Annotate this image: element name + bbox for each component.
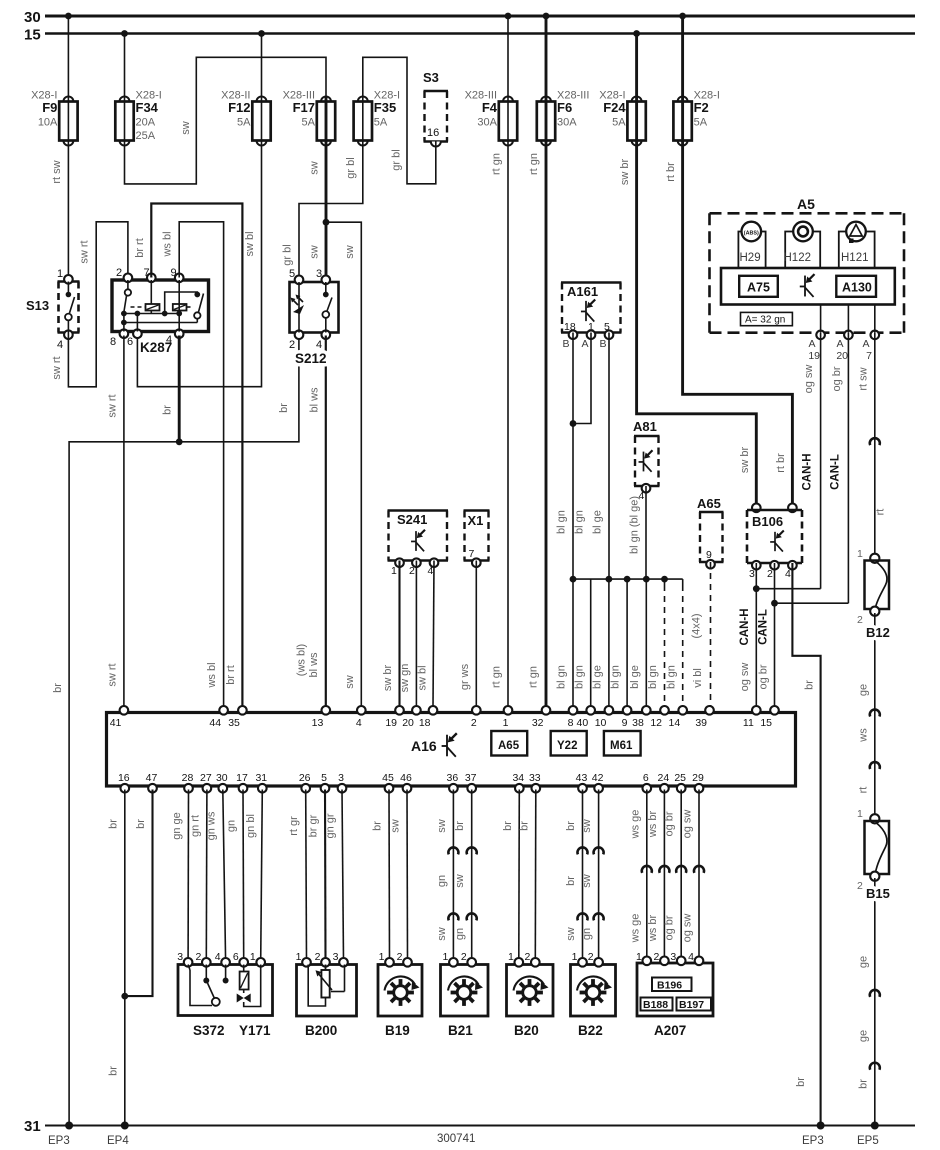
fuse F9 10A: [63, 97, 73, 102]
wire A65 pin9 to A16 pin39 (vi bl, 4x4, dashed): [710, 562, 712, 707]
wire B106 pin4 br to EP3: [792, 563, 820, 1126]
switch S241: [388, 509, 449, 511]
svg-text:1: 1: [508, 951, 514, 963]
wire bus to pin12 (bl gn, dashed): [664, 579, 666, 585]
svg-text:bl ge: bl ge: [592, 665, 604, 689]
A16 pin 6: [643, 784, 652, 793]
svg-text:47: 47: [146, 772, 158, 784]
svg-text:og br: og br: [831, 366, 843, 391]
wire F2 to B106 (rt br): [683, 145, 793, 511]
svg-text:11: 11: [743, 717, 754, 729]
wire F24 to B106 (sw br): [637, 145, 757, 511]
sub-unit label A130: [836, 276, 876, 297]
wire bus to pin38 (bl ge): [645, 579, 647, 707]
svg-text:sw: sw: [309, 161, 321, 175]
wire F6 to A16 pin32 (rt gn): [545, 145, 548, 708]
svg-text:2: 2: [289, 339, 295, 351]
A16 pin 13: [322, 706, 331, 715]
wire A16 pin31 to Y171 pin1 (gn bl): [261, 790, 263, 961]
svg-text:sw rt: sw rt: [106, 663, 118, 686]
svg-text:ge: ge: [857, 1030, 869, 1042]
junction A161: [570, 420, 577, 427]
svg-text:2: 2: [409, 565, 415, 577]
svg-text:4: 4: [215, 951, 221, 963]
svg-text:sw: sw: [454, 874, 466, 888]
wire A81 pin4 (bl gn / bl ge): [645, 486, 647, 579]
switch S212: [290, 282, 339, 333]
warning lamp H121: [839, 232, 875, 269]
wire A16 pin30 to S372 pin4 (gn ws): [223, 790, 226, 961]
svg-text:sw br: sw br: [382, 665, 394, 692]
svg-text:S3: S3: [423, 70, 439, 85]
svg-text:18: 18: [419, 717, 431, 729]
K287 pin6 stub: [136, 314, 138, 332]
svg-text:B21: B21: [448, 1023, 473, 1038]
svg-text:30: 30: [216, 772, 228, 784]
svg-text:S13: S13: [26, 298, 49, 313]
svg-text:F12: F12: [228, 100, 250, 115]
svg-text:sw: sw: [180, 121, 192, 135]
A16 pin 31: [258, 784, 267, 793]
wheel speed sensor B21: [441, 965, 489, 1017]
svg-text:S241: S241: [397, 512, 427, 527]
svg-text:4: 4: [356, 717, 362, 729]
junction 15/F12: [258, 30, 265, 37]
A16 pin 15: [770, 706, 779, 715]
svg-text:sw: sw: [436, 927, 448, 941]
svg-text:B: B: [562, 338, 569, 350]
junction br: [176, 438, 183, 445]
svg-text:bl gn: bl gn: [647, 665, 659, 689]
svg-text:rt gn: rt gn: [491, 666, 503, 688]
svg-text:rt br: rt br: [775, 453, 787, 473]
svg-text:og br: og br: [664, 811, 676, 836]
A16 pin 18: [429, 706, 438, 715]
wire 15 to F12: [261, 34, 263, 98]
label A=32gn: [741, 312, 793, 325]
svg-text:br: br: [135, 819, 147, 829]
wire A16 pin34 to B20 pin1 (br): [518, 790, 521, 961]
svg-text:CAN-L: CAN-L: [757, 609, 769, 645]
svg-text:5: 5: [321, 772, 327, 784]
svg-text:2: 2: [767, 568, 773, 580]
svg-text:gn: gn: [454, 928, 466, 940]
svg-text:25: 25: [674, 772, 686, 784]
svg-text:17: 17: [236, 772, 248, 784]
wire 15 to F24: [635, 34, 638, 98]
svg-text:A= 32 gn: A= 32 gn: [745, 315, 785, 326]
svg-text:B197: B197: [679, 999, 704, 1011]
wire bus to pin9 (bl gn): [626, 579, 628, 707]
svg-text:A161: A161: [567, 284, 598, 299]
svg-text:sw: sw: [344, 675, 356, 689]
svg-text:gn rt: gn rt: [189, 815, 201, 837]
svg-text:br: br: [107, 1066, 119, 1076]
A16 pin 26: [301, 784, 310, 793]
fuse F4 30A: [503, 97, 513, 102]
svg-text:ws br: ws br: [647, 915, 659, 943]
control unit A207 (B196/B188/B197 sensors): [637, 963, 713, 1016]
svg-text:ws bl: ws bl: [206, 662, 218, 688]
wire sw branch to A16 pin4: [326, 222, 361, 707]
svg-text:2: 2: [857, 880, 863, 892]
svg-text:H29: H29: [740, 252, 761, 264]
svg-text:46: 46: [400, 772, 412, 784]
svg-text:br: br: [454, 821, 466, 831]
svg-text:bl gn: bl gn: [665, 665, 677, 689]
svg-text:40: 40: [577, 717, 589, 729]
control unit B106: [752, 504, 761, 513]
svg-text:41: 41: [110, 717, 122, 729]
fuse F34 20A/25A: [120, 97, 130, 102]
svg-text:36: 36: [447, 772, 459, 784]
wire bus to pin10 (bl ge): [608, 579, 610, 707]
svg-text:16: 16: [427, 127, 439, 139]
svg-text:A207: A207: [654, 1023, 686, 1038]
svg-text:bl gn: bl gn: [556, 510, 568, 534]
svg-text:14: 14: [669, 717, 681, 729]
A16 pin 47: [148, 784, 157, 793]
svg-text:br: br: [107, 819, 119, 829]
svg-text:B196: B196: [657, 980, 682, 992]
svg-text:og sw: og sw: [682, 810, 694, 839]
A16 pin 37: [467, 784, 476, 793]
svg-text:og sw: og sw: [803, 365, 815, 394]
sub-unit B197: [677, 998, 712, 1011]
svg-text:19: 19: [808, 350, 820, 362]
svg-text:rt gn: rt gn: [528, 666, 540, 688]
svg-text:5A: 5A: [694, 117, 708, 129]
junction bus p38: [643, 576, 650, 583]
wire S241 pin1 to A16 pin19 (sw br): [398, 561, 400, 708]
A16 pin 30: [219, 784, 228, 793]
wire S241 pin4 to A16 pin18 (sw bl): [433, 561, 434, 708]
wire bus to pin8 (bl gn): [572, 579, 574, 707]
svg-text:sw: sw: [436, 819, 448, 833]
svg-text:1: 1: [443, 951, 449, 963]
svg-text:br: br: [518, 821, 530, 831]
wire A16 pin27 to S372 pin2 (gn rt): [205, 790, 208, 961]
A5 pin A7: [871, 331, 880, 340]
wire A16 pin42 to B22 pin2 (sw/sw/gn): [598, 790, 600, 961]
svg-text:16: 16: [118, 772, 130, 784]
A16 pin 10: [605, 706, 614, 715]
wire A16 pin17 to S372 pin6 (gn): [242, 790, 245, 961]
A16 pin 1: [504, 706, 513, 715]
wire S13 pin4 to K287 pin2 (sw rt): [68, 222, 128, 387]
svg-text:1: 1: [391, 565, 397, 577]
svg-text:gn ws: gn ws: [205, 811, 217, 840]
svg-text:5A: 5A: [612, 117, 626, 129]
A16 pin 2: [472, 706, 481, 715]
svg-text:9: 9: [622, 717, 628, 729]
svg-text:sw: sw: [581, 819, 593, 833]
svg-text:2: 2: [588, 951, 594, 963]
svg-text:rt: rt: [875, 509, 887, 516]
svg-text:sw gn: sw gn: [399, 664, 411, 693]
svg-text:5A: 5A: [302, 117, 316, 129]
fuse F35 5A: [358, 97, 368, 102]
svg-text:sw: sw: [581, 874, 593, 888]
fuse F12 5A: [257, 97, 267, 102]
svg-text:S372: S372: [193, 1023, 225, 1038]
K287 internal wire to contact 2 fixed: [165, 292, 198, 314]
svg-text:1: 1: [57, 268, 63, 280]
A16 pin 35: [238, 706, 247, 715]
svg-text:4: 4: [785, 568, 791, 580]
svg-text:B19: B19: [385, 1023, 410, 1038]
wire br horizontal S212pin2 to EP3 drop: [69, 336, 299, 1126]
wire A161 pin18 (bl gn): [572, 333, 574, 424]
svg-text:ws: ws: [857, 728, 869, 743]
junction EP3 left: [65, 1122, 73, 1130]
A16 pin 27: [203, 784, 212, 793]
A5 control icon: [800, 274, 815, 297]
svg-text:EP5: EP5: [857, 1135, 879, 1147]
A16 pin 12: [660, 706, 669, 715]
switch S372 / valve Y171 unit: [178, 965, 273, 1016]
A16 pin 4: [357, 706, 366, 715]
K287 contact 2 (to pin8 net): [199, 294, 204, 313]
svg-text:F9: F9: [42, 100, 57, 115]
svg-text:EP4: EP4: [107, 1135, 129, 1147]
svg-text:28: 28: [182, 772, 194, 784]
svg-text:sw bl: sw bl: [417, 665, 429, 690]
svg-text:vi bl: vi bl: [692, 668, 704, 688]
svg-text:3: 3: [338, 772, 344, 784]
K287 pin9 to pin4 through wire: [178, 280, 180, 332]
svg-text:A: A: [581, 338, 588, 350]
svg-text:2: 2: [315, 951, 321, 963]
svg-text:34: 34: [512, 772, 524, 784]
svg-text:33: 33: [529, 772, 541, 784]
wire A16 pin26 to B200 pin1 (rt gr): [305, 790, 308, 961]
control unit A16 (ABS): [107, 713, 796, 787]
svg-text:45: 45: [382, 772, 394, 784]
wire B106 pin2 to A16 pin15 (og br): [774, 563, 776, 707]
wire S3 to F35 (gr bl): [363, 57, 436, 184]
svg-text:4: 4: [166, 334, 172, 346]
svg-text:CAN-L: CAN-L: [830, 454, 842, 490]
wire A16 pin28 to S372 pin3 (gn ge): [187, 790, 189, 961]
svg-text:bl gn: bl gn: [573, 665, 585, 689]
A16 pin 11: [752, 706, 761, 715]
wire A16 pin3 to B200 pin3 (gn gr): [342, 790, 344, 961]
svg-text:sw bl: sw bl: [244, 231, 256, 256]
junction bus p12: [661, 576, 668, 583]
svg-text:F4: F4: [482, 100, 498, 115]
svg-text:Y171: Y171: [239, 1023, 271, 1038]
wire F17 to S212 pin3 (sw): [325, 145, 328, 278]
svg-text:sw: sw: [390, 819, 402, 833]
svg-text:sw: sw: [309, 245, 321, 259]
A16 pin 46: [403, 784, 412, 793]
svg-text:gn bl: gn bl: [245, 814, 257, 838]
A16 pin 43: [578, 784, 587, 793]
svg-text:br gr: br gr: [308, 814, 320, 837]
svg-text:br: br: [502, 821, 514, 831]
wire K287 pin9 to A16 pin44 (ws bl): [179, 222, 223, 707]
svg-text:br: br: [857, 1079, 869, 1089]
junction bus p9: [624, 576, 631, 583]
svg-text:2: 2: [461, 951, 467, 963]
S372 internals: [188, 965, 190, 971]
svg-text:og sw: og sw: [739, 663, 751, 692]
svg-text:ws ge: ws ge: [629, 810, 641, 840]
wheel speed sensor B19: [378, 965, 422, 1017]
svg-text:rt br: rt br: [665, 162, 677, 182]
A16 pin 29: [695, 784, 704, 793]
svg-text:2: 2: [397, 951, 403, 963]
svg-text:6: 6: [233, 951, 239, 963]
svg-text:gr bl: gr bl: [345, 157, 357, 178]
svg-text:1: 1: [857, 808, 863, 820]
svg-text:bl ws: bl ws: [308, 652, 320, 678]
wire A16 pin37 to B21 pin2 (br/sw/gn): [471, 790, 473, 961]
svg-text:4: 4: [428, 565, 434, 577]
svg-text:8: 8: [568, 717, 574, 729]
svg-text:H121: H121: [841, 252, 869, 264]
junction 15/F24: [633, 30, 640, 37]
junction 30/F4: [505, 13, 512, 20]
svg-text:og br: og br: [757, 664, 769, 689]
svg-text:B106: B106: [752, 514, 783, 529]
svg-text:Y22: Y22: [557, 740, 577, 752]
svg-text:rt: rt: [857, 787, 869, 794]
svg-text:(ws bl): (ws bl): [296, 644, 308, 676]
wire F34 to F17 (sw): [125, 57, 327, 184]
wire A16 pin43 to B22 pin1 (br/br/sw): [582, 790, 584, 961]
K287 contact (pin2-pin8): [127, 280, 129, 289]
svg-text:29: 29: [692, 772, 704, 784]
svg-text:4: 4: [316, 339, 322, 351]
svg-text:1: 1: [296, 951, 302, 963]
svg-text:gn: gn: [436, 875, 448, 887]
junction 15/F34: [121, 30, 128, 37]
wire 15 to F34: [124, 34, 126, 98]
svg-text:bl gn: bl gn: [574, 510, 586, 534]
wire B12 to B15 (ge/ws/rt): [874, 613, 876, 817]
wire og sw link: [756, 588, 820, 590]
svg-text:13: 13: [312, 717, 324, 729]
svg-text:F34: F34: [136, 100, 159, 115]
svg-text:15: 15: [760, 717, 772, 729]
svg-text:2: 2: [654, 951, 660, 963]
svg-text:sw rt: sw rt: [51, 356, 63, 379]
wire A161 junction down to bus: [572, 424, 574, 580]
svg-text:rt sw: rt sw: [857, 367, 869, 390]
svg-text:rt gn: rt gn: [528, 153, 540, 175]
A16 pin 14: [678, 706, 687, 715]
svg-text:S212: S212: [295, 351, 327, 366]
A16 pin 38: [642, 706, 651, 715]
A16 pin 40: [586, 706, 595, 715]
K287 coil 1: [150, 280, 152, 304]
sub-unit label Y22 in A16: [551, 731, 587, 756]
svg-text:F2: F2: [694, 100, 709, 115]
svg-text:24: 24: [658, 772, 670, 784]
svg-text:og br: og br: [664, 915, 676, 940]
A5 inner unit box: [721, 268, 895, 305]
svg-text:br: br: [795, 1077, 807, 1087]
svg-text:5A: 5A: [374, 117, 388, 129]
bl gn bus line: [573, 578, 683, 580]
A16 pin 36: [449, 784, 458, 793]
svg-text:10A: 10A: [38, 117, 58, 129]
wire A5-20 og br (CAN-L): [847, 333, 849, 604]
wire A16 pin33 to B20 pin2 (br): [534, 790, 537, 961]
svg-text:1: 1: [503, 717, 509, 729]
svg-text:20: 20: [402, 717, 414, 729]
wire A5-7 rt sw to B12: [874, 333, 876, 556]
warning lamp H122: [785, 232, 820, 269]
svg-text:(4x4): (4x4): [691, 613, 703, 638]
sub-unit label M61 in A16: [604, 731, 641, 756]
junction pin47/EP4: [121, 993, 128, 1000]
wire A16 pin16 br to EP4: [124, 790, 126, 1126]
svg-text:gn: gn: [581, 928, 593, 940]
svg-text:A: A: [808, 338, 815, 350]
svg-text:bl ws: bl ws: [308, 387, 320, 413]
junction 30/F2: [679, 13, 686, 20]
sub-unit label A75: [739, 276, 778, 297]
S212 switch leg: [325, 282, 327, 293]
svg-text:A: A: [862, 338, 869, 350]
wire K287 pin7 to A16 pin35 (br rt): [151, 204, 242, 708]
svg-text:A130: A130: [842, 281, 872, 295]
K287 coil 2: [173, 304, 187, 311]
svg-text:A81: A81: [633, 419, 657, 434]
wire 30 to F2: [681, 16, 684, 97]
svg-text:CAN-H: CAN-H: [802, 453, 814, 490]
svg-text:ws bl: ws bl: [162, 231, 174, 257]
svg-text:bl ge: bl ge: [592, 510, 604, 534]
svg-text:A: A: [836, 338, 843, 350]
junction EP5: [871, 1122, 879, 1130]
svg-text:7: 7: [866, 350, 872, 362]
svg-text:1: 1: [250, 951, 256, 963]
A16 pin 39: [705, 706, 714, 715]
fuse F17 5A: [321, 97, 331, 102]
svg-text:4: 4: [57, 339, 63, 351]
svg-text:3: 3: [333, 951, 339, 963]
svg-text:300741: 300741: [437, 1133, 475, 1145]
svg-text:1: 1: [379, 951, 385, 963]
svg-text:bl gn: bl gn: [556, 665, 568, 689]
svg-text:44: 44: [209, 717, 221, 729]
svg-text:A16: A16: [411, 738, 437, 754]
svg-text:rt gn: rt gn: [491, 153, 503, 175]
svg-text:32: 32: [532, 717, 544, 729]
wire F9 to S13 pin1 (rt sw): [67, 145, 69, 278]
svg-text:gr bl: gr bl: [282, 244, 294, 265]
warning lamp H29: [738, 232, 765, 269]
wire A16 pin36 to B21 pin1 (sw/gn/sw): [452, 790, 454, 961]
wire A16 pin24 to A207 pin2 (ws br): [663, 790, 665, 961]
svg-text:1: 1: [636, 951, 642, 963]
wire 30 to F4: [507, 16, 509, 97]
svg-text:1: 1: [857, 548, 863, 560]
svg-text:3: 3: [670, 951, 676, 963]
svg-text:br: br: [565, 821, 577, 831]
wire A16 pin29 to A207 pin4 (og sw): [698, 790, 700, 961]
wheel speed sensor B22: [571, 965, 616, 1017]
svg-text:A65: A65: [498, 740, 520, 752]
svg-text:br: br: [52, 683, 64, 693]
connector X1: [464, 509, 490, 511]
wire A161 pin1 (bl gn): [573, 333, 591, 424]
svg-text:2: 2: [471, 717, 477, 729]
